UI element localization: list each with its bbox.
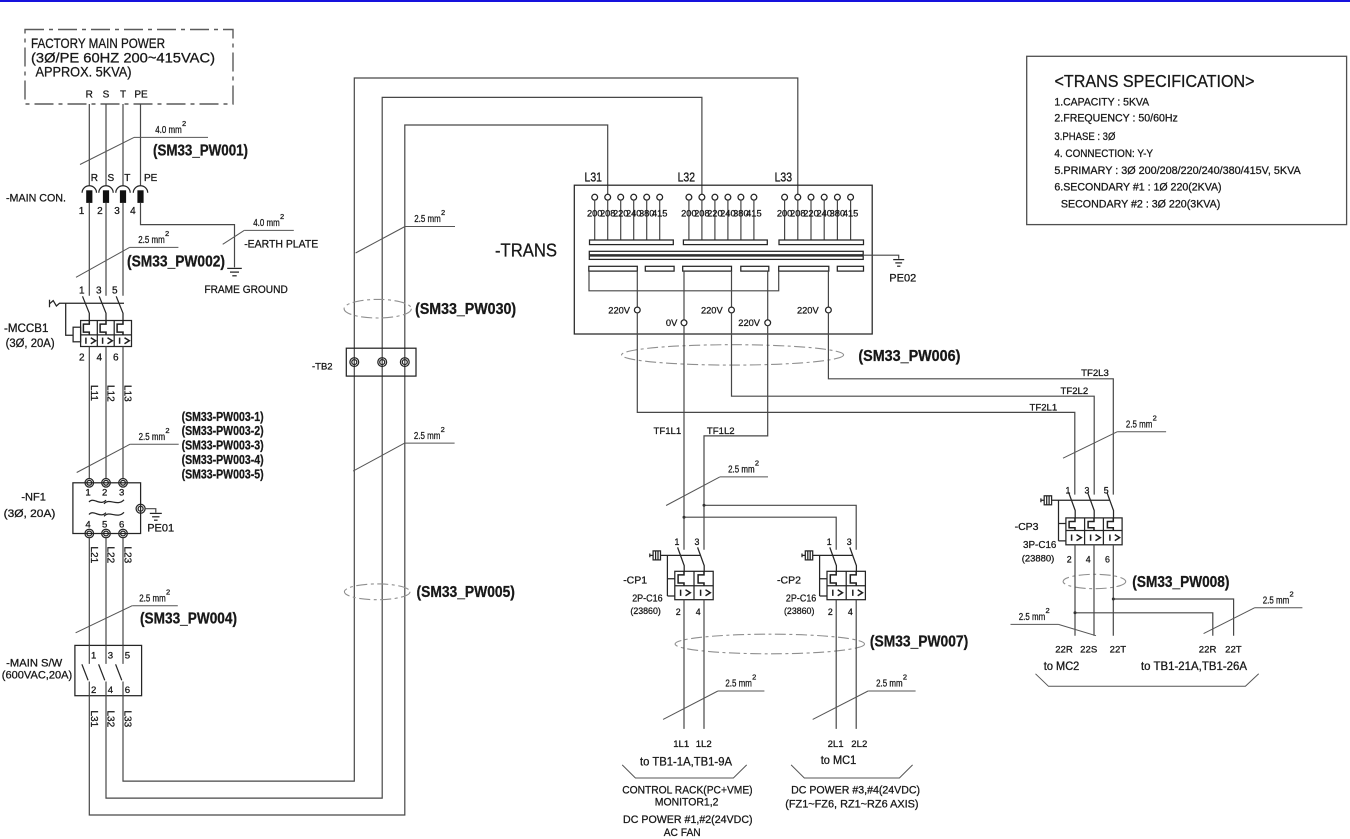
main connector -MAIN CON. — [6, 173, 158, 217]
svg-text:L22: L22 — [105, 547, 116, 564]
PW002 wire-size label 2.5 mm2 — [76, 229, 178, 277]
PE02 core ground — [863, 255, 899, 259]
branch wire to CP2 pole 1 — [684, 517, 836, 550]
svg-text:2: 2 — [165, 229, 169, 238]
svg-text:AC FAN: AC FAN — [664, 827, 701, 839]
svg-text:2P-C16: 2P-C16 — [632, 593, 663, 605]
svg-text:3P-C16: 3P-C16 — [1023, 539, 1057, 551]
svg-text:PE: PE — [144, 173, 158, 184]
svg-text:(SM33_PW006): (SM33_PW006) — [858, 348, 960, 365]
svg-text:2L1: 2L1 — [828, 739, 844, 750]
svg-text:2: 2 — [97, 206, 103, 217]
ground symbol PE02 — [893, 260, 904, 267]
svg-text:1: 1 — [85, 487, 90, 498]
CP3outL wire-size label 2.5 mm2 — [1011, 606, 1097, 636]
svg-text:MONITOR1,2: MONITOR1,2 — [655, 796, 719, 808]
svg-text:-EARTH PLATE: -EARTH PLATE — [244, 239, 318, 251]
output wires 22R 22S 22T — [1075, 545, 1113, 636]
svg-text:2: 2 — [441, 208, 445, 217]
svg-text:<TRANS SPECIFICATION>: <TRANS SPECIFICATION> — [1055, 71, 1255, 91]
svg-text:4: 4 — [108, 685, 114, 696]
svg-text:to TB1-21A,TB1-26A: to TB1-21A,TB1-26A — [1141, 661, 1247, 673]
cable bundle ellipse SM33_PW007 — [675, 634, 864, 654]
svg-text:CONTROL RACK(PC+VME): CONTROL RACK(PC+VME) — [622, 784, 752, 796]
svg-text:1: 1 — [79, 285, 85, 296]
svg-text:4: 4 — [130, 206, 136, 217]
svg-text:2.5 mm: 2.5 mm — [876, 679, 903, 690]
cable bundle ellipse SM33_PW006 — [622, 345, 844, 365]
branch wire to 22T right — [1113, 599, 1233, 636]
svg-text:1L2: 1L2 — [696, 739, 712, 750]
svg-text:1L1: 1L1 — [673, 739, 689, 750]
svg-text:4: 4 — [85, 520, 91, 531]
svg-text:3: 3 — [96, 285, 102, 296]
output wires 2L1 2L2 — [836, 600, 856, 729]
svg-text:2L2: 2L2 — [851, 739, 867, 750]
svg-text:2.5 mm: 2.5 mm — [138, 235, 165, 246]
svg-text:-MAIN CON.: -MAIN CON. — [6, 193, 66, 205]
svg-text:2: 2 — [441, 425, 445, 434]
svg-text:(23860): (23860) — [630, 606, 660, 617]
TF1-2.5 wire-size label 2.5 mm2 — [666, 459, 768, 506]
CP2out wire-size label 2.5 mm2 — [813, 673, 916, 720]
svg-text:TF2L3: TF2L3 — [1081, 368, 1109, 379]
svg-text:FACTORY MAIN POWER: FACTORY MAIN POWER — [31, 36, 165, 51]
svg-text:22R: 22R — [1055, 644, 1073, 655]
PE wire to earth plate — [141, 203, 235, 267]
svg-text:FRAME GROUND: FRAME GROUND — [204, 284, 287, 296]
svg-text:6: 6 — [125, 685, 130, 696]
PW004 wire-size label 2.5 mm2 — [76, 587, 178, 632]
trans specification box — [1027, 56, 1347, 224]
svg-text:4.0 mm: 4.0 mm — [253, 218, 280, 229]
svg-text:L32: L32 — [105, 711, 116, 728]
wires R S T below main connector — [89, 203, 123, 296]
factory main power source box — [25, 30, 233, 105]
svg-text:22T: 22T — [1110, 644, 1127, 655]
EARTH-4.0 wire-size label 4.0 mm2 — [223, 212, 294, 244]
svg-text:2: 2 — [1067, 554, 1072, 564]
svg-text:S: S — [108, 173, 115, 184]
svg-text:L31: L31 — [585, 170, 603, 185]
wires L11 L12 L13 — [89, 347, 123, 479]
wire TF1L1 — [683, 325, 685, 549]
svg-text:TF2L2: TF2L2 — [1061, 386, 1089, 397]
output wires 1L1 1L2 — [684, 600, 704, 729]
svg-text:0V: 0V — [666, 318, 678, 328]
CP3outR wire-size label 2.5 mm2 — [1204, 590, 1303, 634]
wires L21 L22 L23 — [89, 538, 123, 646]
svg-text:2: 2 — [676, 607, 681, 617]
svg-text:1: 1 — [674, 537, 679, 547]
svg-text:2: 2 — [903, 673, 907, 682]
svg-text:S: S — [103, 90, 110, 101]
branch wire to CP2 pole 3 — [704, 505, 856, 549]
svg-text:6: 6 — [119, 520, 124, 531]
CP3-2.5 wire-size label 2.5 mm2 — [1063, 414, 1166, 459]
svg-text:-CP1: -CP1 — [623, 575, 647, 587]
svg-text:to TB1-1A,TB1-9A: to TB1-1A,TB1-9A — [640, 756, 732, 768]
destination brace right — [1036, 674, 1259, 687]
svg-text:2: 2 — [1153, 414, 1157, 423]
TOPMID wire-size label 2.5 mm2 — [356, 208, 455, 253]
svg-text:6: 6 — [1105, 554, 1110, 564]
svg-text:(SM33-PW003-2): (SM33-PW003-2) — [182, 423, 264, 438]
PE01 terminal wire and ground — [145, 509, 156, 513]
svg-text:4: 4 — [848, 607, 853, 617]
svg-text:3: 3 — [847, 537, 852, 547]
svg-text:2: 2 — [165, 426, 169, 435]
svg-text:415: 415 — [746, 209, 762, 219]
svg-text:R: R — [86, 90, 93, 101]
branch wire to 22R right — [1075, 613, 1213, 636]
cable bundle ellipse SM33_PW008 — [1063, 574, 1126, 588]
svg-text:L12: L12 — [105, 385, 116, 402]
svg-text:-MAIN S/W: -MAIN S/W — [6, 658, 63, 670]
svg-text:22T: 22T — [1225, 644, 1242, 655]
svg-text:2.5 mm: 2.5 mm — [139, 432, 166, 443]
svg-text:L13: L13 — [122, 385, 133, 402]
svg-text:5: 5 — [1104, 485, 1109, 495]
cable bundle ellipse SM33_PW005 — [344, 584, 410, 600]
svg-text:2: 2 — [1290, 590, 1294, 599]
wire TF1L2 — [704, 325, 768, 549]
svg-text:(SM33_PW005): (SM33_PW005) — [417, 584, 515, 601]
svg-text:5: 5 — [125, 651, 130, 662]
svg-text:2: 2 — [1046, 606, 1050, 615]
svg-text:2: 2 — [102, 487, 107, 498]
svg-text:4. CONNECTION: Y-Y: 4. CONNECTION: Y-Y — [1054, 148, 1153, 160]
svg-text:L23: L23 — [122, 547, 133, 564]
svg-text:(SM33_PW008): (SM33_PW008) — [1132, 574, 1229, 591]
svg-text:-TRANS: -TRANS — [495, 241, 557, 261]
svg-text:PE01: PE01 — [147, 523, 174, 535]
svg-text:-CP2: -CP2 — [777, 575, 801, 587]
svg-text:2: 2 — [828, 607, 833, 617]
ground symbol PE01 — [150, 513, 162, 520]
svg-text:3: 3 — [694, 537, 699, 547]
svg-text:2P-C16: 2P-C16 — [786, 593, 817, 605]
ground symbol frame ground — [227, 268, 242, 275]
load description dc power 3 4 — [785, 784, 920, 810]
svg-text:(SM33-PW003-4): (SM33-PW003-4) — [182, 452, 264, 467]
svg-text:5.PRIMARY : 3Ø 200/208/220/240: 5.PRIMARY : 3Ø 200/208/220/240/380/415V,… — [1054, 165, 1301, 177]
wires R S T PE from source box — [89, 104, 140, 186]
svg-text:(SM33_PW007): (SM33_PW007) — [870, 633, 968, 650]
svg-text:2: 2 — [755, 459, 759, 468]
svg-text:L32: L32 — [678, 170, 696, 185]
cable bundle ellipse SM33_PW030 — [344, 299, 411, 318]
svg-text:TF1L2: TF1L2 — [707, 426, 735, 437]
wire L33 routing to transformer — [123, 78, 798, 781]
PW001 wire-size label 4.0 mm2 — [80, 119, 208, 164]
svg-text:2.FREQUENCY : 50/60Hz: 2.FREQUENCY : 50/60Hz — [1054, 113, 1177, 125]
circuit breaker CP2 — [777, 537, 865, 617]
svg-text:3: 3 — [1084, 485, 1089, 495]
CP1out wire-size label 2.5 mm2 — [663, 673, 764, 720]
svg-text:(SM33-PW003-1): (SM33-PW003-1) — [182, 409, 264, 424]
svg-text:to MC1: to MC1 — [821, 755, 857, 767]
svg-text:(SM33-PW003-5): (SM33-PW003-5) — [182, 466, 264, 481]
svg-text:L33: L33 — [122, 711, 133, 728]
svg-text:3: 3 — [108, 651, 113, 662]
svg-text:4: 4 — [96, 353, 102, 364]
svg-text:2.5 mm: 2.5 mm — [1126, 420, 1153, 431]
svg-text:PE: PE — [134, 90, 148, 101]
svg-text:2: 2 — [91, 685, 96, 696]
svg-text:2.5 mm: 2.5 mm — [1019, 612, 1046, 623]
svg-text:to MC2: to MC2 — [1044, 661, 1080, 673]
svg-text:(SM33-PW003-3): (SM33-PW003-3) — [182, 438, 264, 453]
svg-text:-NF1: -NF1 — [21, 492, 45, 504]
svg-text:1: 1 — [91, 651, 96, 662]
svg-text:TF1L1: TF1L1 — [654, 426, 682, 437]
svg-text:2: 2 — [752, 673, 756, 682]
svg-text:4: 4 — [696, 607, 701, 617]
svg-text:2: 2 — [166, 587, 170, 596]
svg-text:(SM33_PW004): (SM33_PW004) — [140, 611, 237, 628]
wire L31 routing to transformer — [89, 125, 607, 815]
svg-text:(FZ1~FZ6, RZ1~RZ6 AXIS): (FZ1~FZ6, RZ1~RZ6 AXIS) — [785, 799, 918, 811]
svg-text:(3Ø, 20A): (3Ø, 20A) — [6, 338, 55, 350]
svg-text:22S: 22S — [1080, 644, 1097, 655]
svg-text:(SM33_PW001): (SM33_PW001) — [153, 142, 248, 159]
svg-text:-CP3: -CP3 — [1015, 521, 1039, 533]
svg-text:L33: L33 — [775, 170, 793, 185]
svg-text:T: T — [120, 90, 126, 101]
svg-text:3: 3 — [119, 487, 124, 498]
svg-text:2.5 mm: 2.5 mm — [414, 214, 441, 225]
svg-text:1: 1 — [79, 206, 85, 217]
terminal block TB2 — [312, 348, 416, 376]
svg-text:220V: 220V — [701, 305, 724, 315]
svg-text:L31: L31 — [88, 711, 99, 728]
svg-text:R: R — [91, 173, 98, 184]
svg-text:-TB2: -TB2 — [312, 362, 333, 373]
svg-text:(SM33_PW002): (SM33_PW002) — [127, 254, 225, 271]
svg-text:2.5 mm: 2.5 mm — [1263, 596, 1290, 607]
circuit breaker CP1 — [623, 537, 713, 617]
svg-text:(23860): (23860) — [784, 606, 814, 617]
svg-text:3: 3 — [114, 206, 120, 217]
circuit breaker MCCB1 — [4, 285, 132, 363]
destination brace to TB1-1A,TB1-9A — [622, 765, 747, 778]
svg-text:T: T — [124, 173, 130, 184]
svg-text:(3Ø, 20A): (3Ø, 20A) — [4, 508, 56, 520]
svg-text:5: 5 — [112, 285, 118, 296]
svg-text:220V: 220V — [738, 318, 761, 328]
svg-text:(SM33_PW030): (SM33_PW030) — [415, 301, 516, 318]
svg-text:(600VAC,20A): (600VAC,20A) — [2, 670, 72, 682]
svg-text:6: 6 — [113, 353, 119, 364]
svg-text:2: 2 — [182, 119, 186, 128]
svg-text:2.5 mm: 2.5 mm — [728, 465, 755, 476]
svg-text:L21: L21 — [88, 547, 99, 564]
svg-text:415: 415 — [843, 209, 859, 219]
destination brace to MC1 — [791, 765, 913, 778]
svg-text:-MCCB1: -MCCB1 — [4, 323, 48, 335]
main switch MAIN S/W — [2, 645, 142, 696]
wire TF2L3 — [828, 313, 1113, 495]
svg-text:1.CAPACITY : 5KVA: 1.CAPACITY : 5KVA — [1054, 97, 1149, 109]
svg-text:(3Ø/PE 60HZ 200~415VAC): (3Ø/PE 60HZ 200~415VAC) — [31, 51, 215, 66]
svg-text:2.5 mm: 2.5 mm — [414, 431, 441, 442]
svg-text:DC POWER #1,#2(24VDC): DC POWER #1,#2(24VDC) — [623, 814, 753, 826]
svg-text:3.PHASE : 3Ø: 3.PHASE : 3Ø — [1054, 131, 1116, 143]
svg-text:1: 1 — [1065, 485, 1070, 495]
svg-text:415: 415 — [652, 209, 668, 219]
wire TF2L2 — [732, 313, 1095, 495]
MID-PW005 wire-size label 2.5 mm2 — [353, 425, 455, 471]
svg-text:(23880): (23880) — [1022, 554, 1055, 565]
svg-text:PE02: PE02 — [889, 273, 916, 285]
svg-text:220V: 220V — [608, 305, 631, 315]
svg-text:6.SECONDARY #1 : 1Ø 220(2KVA): 6.SECONDARY #1 : 1Ø 220(2KVA) — [1054, 182, 1221, 194]
svg-text:4.0 mm: 4.0 mm — [155, 125, 182, 136]
svg-text:220V: 220V — [797, 305, 820, 315]
svg-text:SECONDARY #2 : 3Ø 220(3KVA): SECONDARY #2 : 3Ø 220(3KVA) — [1061, 199, 1220, 211]
svg-text:2: 2 — [79, 353, 85, 364]
svg-text:APPROX. 5KVA): APPROX. 5KVA) — [36, 65, 132, 80]
circuit breaker CP3 — [1015, 485, 1123, 564]
wire L32 routing to transformer — [106, 97, 702, 798]
svg-text:TF2L1: TF2L1 — [1030, 403, 1058, 414]
PW003 wire-size label 2.5 mm2 — [77, 426, 179, 473]
load description control rack — [622, 784, 752, 838]
svg-text:2: 2 — [280, 212, 284, 221]
svg-text:22R: 22R — [1199, 644, 1217, 655]
svg-text:L11: L11 — [88, 385, 99, 401]
svg-text:1: 1 — [827, 537, 832, 547]
svg-text:5: 5 — [102, 520, 107, 531]
transformer -TRANS — [495, 170, 872, 335]
svg-text:2.5 mm: 2.5 mm — [139, 593, 166, 604]
svg-text:4: 4 — [1086, 554, 1091, 564]
noise filter NF1 — [4, 479, 146, 538]
svg-text:2.5 mm: 2.5 mm — [725, 679, 752, 690]
wire TF2L1 — [637, 313, 1075, 495]
svg-text:DC POWER #3,#4(24VDC): DC POWER #3,#4(24VDC) — [791, 784, 920, 796]
